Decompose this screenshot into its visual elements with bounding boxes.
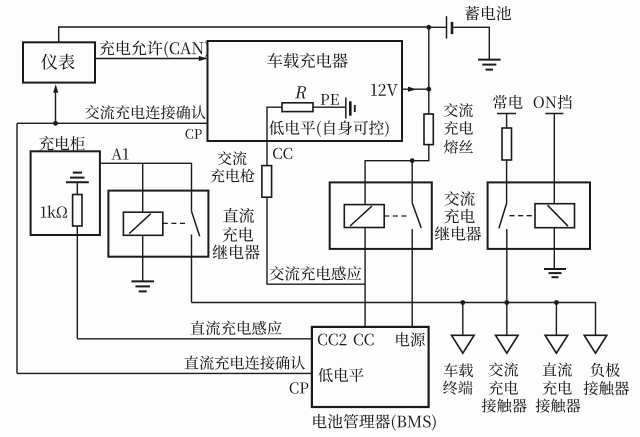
wire: stub to 交流充电接触器 bbox=[506, 303, 508, 336]
battery manager box BMS bbox=[312, 327, 429, 407]
junction: instrument branch bbox=[53, 121, 58, 126]
wire: 1k resistor down to DC sense line bbox=[76, 226, 78, 339]
label 交流充电接触器 bbox=[489, 362, 518, 376]
label 交流充电继电器 (left) bbox=[444, 191, 474, 206]
label 交流充电熔丝 bbox=[444, 103, 473, 117]
fuse 交流充电熔丝 bbox=[424, 114, 433, 145]
label 12V bbox=[371, 84, 398, 96]
on-board charger box 车载充电器 bbox=[208, 41, 403, 141]
relay switch blade (AC left) bbox=[412, 203, 421, 228]
supply bars in cabinet bbox=[73, 172, 82, 174]
pin label CC (BMS) bbox=[354, 334, 374, 346]
net label 直流充电感应 bbox=[191, 321, 282, 335]
junction: bus node 1 bbox=[460, 300, 465, 305]
wire: fuse to AC relay feed bbox=[365, 145, 429, 205]
wire: gun CC down to AC sense line bbox=[267, 197, 365, 284]
wire: 常电 fuse to relay switch bbox=[506, 160, 508, 203]
wire: DC connect-confirm line bbox=[17, 372, 312, 374]
resistor R bbox=[282, 103, 313, 112]
label PE bbox=[321, 94, 339, 105]
relay 交流充电继电器 box (right) bbox=[488, 182, 590, 249]
pin label 电源 bbox=[396, 332, 425, 346]
label 车载终端 bbox=[444, 363, 473, 377]
wire: charger CC pin to gun connector bbox=[266, 141, 268, 166]
label 车载充电器 bbox=[267, 53, 347, 68]
dashed link (DC relay) bbox=[163, 222, 189, 224]
terminal 常电 bbox=[497, 113, 516, 115]
wire: R right to PE bbox=[313, 106, 346, 108]
label A1 bbox=[111, 148, 128, 159]
wire: AC relay coil bottom to BMS CC bbox=[364, 228, 366, 327]
wire: branch up to instrument with arrow bbox=[55, 91, 57, 123]
relay coil (DC) bbox=[123, 212, 162, 235]
relay coil (AC left) bbox=[344, 205, 384, 228]
wire: ON挡 to relay coil bbox=[553, 114, 555, 183]
dashed link (AC left) bbox=[384, 215, 409, 217]
wire: bars to 1k resistor bbox=[76, 182, 78, 194]
relay 直流充电继电器 box bbox=[108, 191, 208, 257]
contactor terminal 直流充电接触器 bbox=[545, 335, 568, 353]
terminal ON挡 bbox=[545, 113, 563, 115]
label CC (gun) bbox=[273, 148, 292, 159]
label 1kΩ bbox=[41, 205, 67, 217]
instrument cluster box 仪表 bbox=[23, 42, 95, 82]
wire: 12V rail vertical bbox=[428, 27, 430, 114]
resistor 1kΩ bbox=[73, 195, 82, 227]
ground: battery bbox=[478, 59, 501, 61]
charging cabinet box 充电柜 bbox=[31, 151, 100, 235]
wire: AC relay switch to BMS 电源 bbox=[411, 229, 413, 327]
wire: battery to ground bbox=[453, 27, 489, 59]
junction: 12V rail top bbox=[426, 25, 431, 30]
wire: feed to AC relay switch bbox=[411, 161, 413, 204]
pin label CP (charger) bbox=[186, 129, 202, 139]
wire: AC connect-confirm CP net bbox=[56, 122, 208, 124]
net label 直流充电连接确认 bbox=[184, 356, 304, 370]
dashed link (AC right) bbox=[510, 215, 536, 217]
label ON挡 bbox=[534, 95, 572, 109]
label 低电平(自身可控) bbox=[269, 120, 389, 137]
relay switch blade (DC) bbox=[192, 211, 200, 236]
wire: DC relay coil to ground bbox=[142, 235, 144, 281]
net label 交流充电连接确认 bbox=[85, 105, 206, 119]
relay 交流充电继电器 box (left) bbox=[330, 182, 432, 249]
pin label 低电平 bbox=[318, 368, 363, 382]
contactor terminal 交流充电接触器 bbox=[496, 335, 519, 353]
junction: 12V rail at charger output bbox=[426, 87, 431, 92]
battery 蓄电池 bbox=[446, 16, 448, 38]
junction: bus node 2 bbox=[504, 300, 509, 305]
wire: stub to 直流充电接触器 bbox=[555, 303, 557, 336]
junction: bus node 3 bbox=[554, 300, 559, 305]
wire: rail to battery bbox=[429, 26, 447, 28]
label 常电 bbox=[493, 95, 523, 109]
label 电池管理器(BMS) bbox=[313, 414, 435, 431]
wire: DC relay switch to bus bbox=[191, 235, 193, 303]
pin label CC2 bbox=[318, 334, 347, 346]
wire: DC charge sense line bbox=[77, 338, 312, 340]
label 蓄电池 bbox=[465, 6, 511, 21]
wire: instrument top to 12V rail bbox=[59, 27, 429, 42]
label 交流充电感应 bbox=[269, 266, 361, 280]
wire: right relay switch to bus bbox=[506, 229, 508, 303]
ground: DC relay coil bbox=[131, 280, 154, 282]
label 充电柜 bbox=[39, 136, 84, 150]
wire: 常电 to fuse bbox=[506, 114, 508, 129]
wire: charge permit (CAN) from instrument to charger with arrow bbox=[95, 58, 206, 60]
label R (italic) bbox=[295, 86, 308, 98]
label 负极接触器 bbox=[590, 363, 620, 377]
wire: cabinet A1 feed to DC relay bbox=[100, 163, 192, 211]
junction: AC relay switch feed bbox=[410, 158, 415, 163]
wire: R left to CP/CC node bbox=[267, 107, 282, 141]
wire: stub to 车载终端 bbox=[462, 303, 464, 336]
label 直流充电继电器 bbox=[223, 208, 254, 223]
pin label CP (BMS) bbox=[290, 382, 309, 393]
ground: right relay coil bbox=[544, 268, 566, 270]
wire: charger 12V output with arrow bbox=[402, 88, 429, 90]
contactor terminal 负极接触器 bbox=[584, 335, 607, 353]
relay coil (AC right) bbox=[535, 204, 575, 228]
label 交流充电枪 bbox=[218, 151, 247, 165]
PE ground symbol bbox=[345, 98, 347, 119]
connector 交流充电枪 bbox=[262, 166, 272, 198]
label 直流充电接触器 bbox=[543, 362, 572, 376]
relay switch blade (AC right) bbox=[499, 203, 507, 229]
fuse 常电 bbox=[502, 128, 512, 160]
contactor terminal 车载终端 bbox=[452, 335, 475, 353]
net label 充电允许(CAN) bbox=[100, 41, 209, 58]
wire: right relay coil to ground bbox=[553, 182, 555, 203]
wire: feed branch to DC relay coil bbox=[142, 163, 144, 212]
wire: contactor supply bus bbox=[192, 303, 596, 336]
